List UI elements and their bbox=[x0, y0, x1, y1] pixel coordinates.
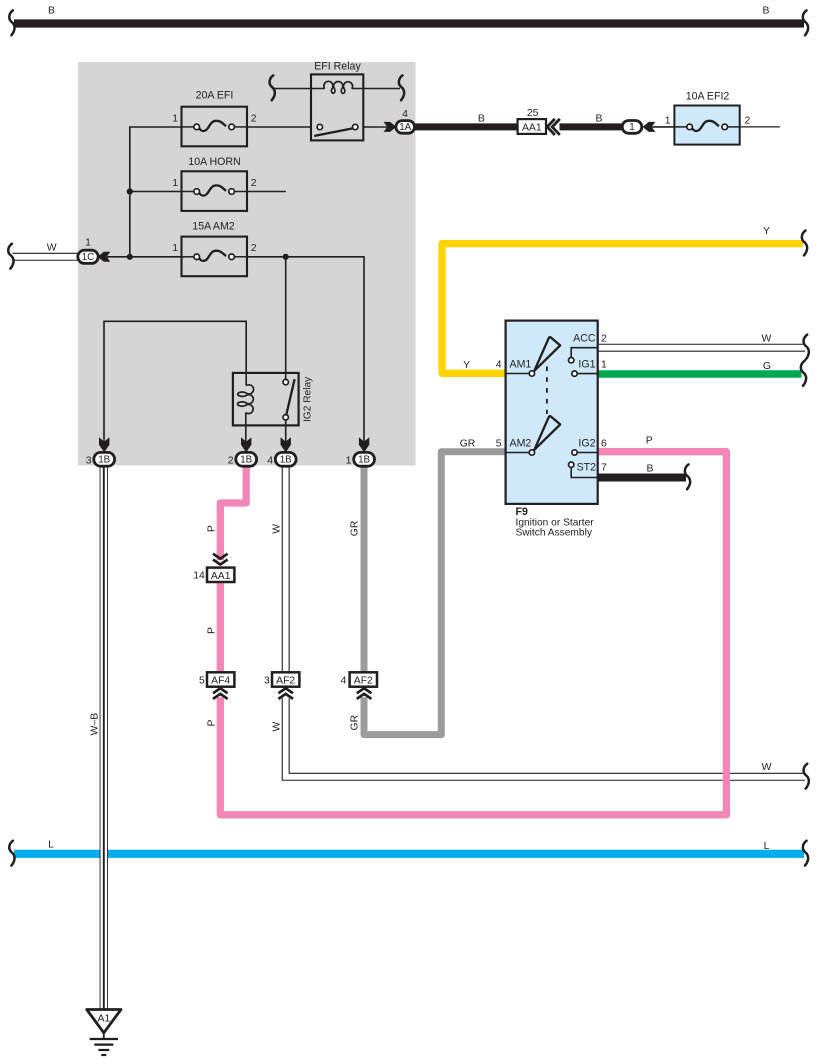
svg-text:W: W bbox=[271, 722, 282, 732]
chevrons below connector AF2 pin 4 bbox=[357, 688, 372, 693]
svg-text:Switch Assembly: Switch Assembly bbox=[516, 528, 593, 539]
wire from 20A EFI pin 2 to EFI relay bbox=[247, 126, 311, 128]
arrow into connector 1C bbox=[98, 252, 111, 262]
chevrons above connector AA1 bbox=[213, 554, 228, 559]
wire from fuse 10A EFI2 pin 2 bbox=[740, 126, 780, 128]
ignition switch F9 box bbox=[506, 321, 598, 504]
switch link dashed bbox=[546, 367, 548, 415]
svg-text:14: 14 bbox=[193, 571, 205, 582]
wire to 10A HORN pin 1 bbox=[130, 191, 182, 193]
IG1 contact bbox=[572, 371, 577, 376]
svg-text:2: 2 bbox=[601, 333, 607, 344]
AM1 switch blade bbox=[534, 337, 560, 371]
wire W from connector 1B pin 4 to AF2 bbox=[282, 465, 290, 673]
svg-text:IG2: IG2 bbox=[578, 437, 595, 449]
wire P between AA1 and AF4 bbox=[217, 582, 224, 674]
wire W to connector 1C bbox=[13, 253, 81, 261]
wire B (battery feed, top) bbox=[14, 19, 804, 27]
AM2 contact bbox=[529, 450, 534, 455]
IG2 relay contact top bbox=[283, 379, 288, 384]
wire through EFI relay coil bbox=[274, 88, 325, 90]
wire from IG2 relay switch to connector 1B pin 4 bbox=[285, 420, 287, 445]
svg-text:AA1: AA1 bbox=[211, 571, 231, 582]
connector 1B pin 3 bbox=[94, 452, 115, 466]
svg-text:L: L bbox=[48, 840, 54, 851]
wire stub from 10A HORN pin 2 bbox=[247, 191, 286, 193]
break symbol right of ST2 wire bbox=[685, 464, 690, 489]
IG2 relay contact bottom bbox=[283, 415, 288, 420]
svg-text:ACC: ACC bbox=[573, 332, 596, 344]
break symbol right of G wire bbox=[801, 361, 806, 386]
ACC contact bbox=[569, 358, 574, 363]
svg-text:10A HORN: 10A HORN bbox=[188, 156, 240, 168]
chevrons below connector AF2 pin 3 bbox=[278, 688, 293, 693]
svg-text:AM1: AM1 bbox=[510, 358, 532, 370]
IG2 relay switch blade bbox=[286, 380, 294, 415]
break symbol right of wire B bbox=[803, 10, 808, 35]
svg-text:2: 2 bbox=[228, 455, 234, 466]
ST2 contact bbox=[569, 462, 574, 467]
fuse 20A EFI bbox=[182, 107, 248, 147]
svg-text:AF2: AF2 bbox=[354, 676, 373, 687]
svg-text:4: 4 bbox=[341, 675, 347, 686]
svg-text:EFI Relay: EFI Relay bbox=[314, 60, 361, 72]
svg-text:3: 3 bbox=[264, 675, 270, 686]
svg-text:4: 4 bbox=[402, 109, 408, 120]
connector AF2 (pin 3) bbox=[272, 672, 299, 686]
svg-text:1: 1 bbox=[665, 116, 671, 127]
arrow into connector 1A bbox=[384, 122, 397, 132]
connector 1A bbox=[396, 121, 415, 134]
break symbol right of L wire bbox=[803, 841, 808, 866]
IG1 lead bbox=[577, 373, 598, 375]
svg-text:1B: 1B bbox=[280, 455, 292, 466]
svg-text:GR: GR bbox=[349, 714, 360, 730]
connector AA1 (pin 25) on B wire bbox=[518, 119, 546, 134]
wire from IG2 relay coil to connector 1B pin 2 bbox=[245, 412, 247, 444]
svg-text:AA1: AA1 bbox=[522, 123, 542, 134]
ground A1 bbox=[87, 1010, 121, 1033]
wire from EFI relay contact to connector 1A bbox=[363, 126, 388, 128]
wire from arrow to fuse 10A EFI2 pin 1 bbox=[652, 126, 674, 128]
svg-text:1A: 1A bbox=[399, 122, 411, 133]
junction-box panel bbox=[78, 62, 416, 465]
svg-text:1B: 1B bbox=[358, 455, 370, 466]
wire W from AF2 to right break bbox=[286, 698, 805, 777]
wire from junction to IG2 relay switch bbox=[285, 257, 287, 380]
connector 1B pin 4 bbox=[275, 452, 296, 466]
svg-text:1: 1 bbox=[172, 178, 178, 189]
EFI relay contact left bbox=[317, 124, 322, 129]
connector 1B pin 2 bbox=[236, 452, 257, 466]
svg-text:P: P bbox=[206, 627, 217, 634]
svg-text:B: B bbox=[48, 6, 55, 17]
svg-text:15A AM2: 15A AM2 bbox=[192, 221, 235, 233]
svg-text:2: 2 bbox=[251, 178, 257, 189]
wire from 15A AM2 pin 2 to connector 1B pin 1 bbox=[247, 257, 364, 445]
wire G from IG1 bbox=[598, 370, 802, 377]
chevrons after AA1 box bbox=[547, 119, 560, 135]
svg-text:AM2: AM2 bbox=[510, 437, 532, 449]
ACC lead bbox=[571, 348, 598, 358]
svg-text:2: 2 bbox=[251, 113, 257, 124]
svg-text:1: 1 bbox=[85, 238, 91, 249]
svg-text:AF2: AF2 bbox=[276, 676, 295, 687]
connector 1 bbox=[622, 121, 642, 134]
svg-text:5: 5 bbox=[496, 438, 502, 449]
break symbol left of wire B bbox=[9, 10, 14, 35]
wire P from connector 1B pin 2 bbox=[220, 465, 246, 560]
svg-text:B: B bbox=[478, 114, 485, 125]
svg-text:Y: Y bbox=[463, 360, 470, 371]
IG2 relay box bbox=[233, 373, 299, 426]
svg-text:25: 25 bbox=[527, 108, 539, 119]
fuse 10A EFI2 bbox=[674, 106, 739, 145]
wire B from ST2 bbox=[598, 474, 686, 482]
AM2 switch blade bbox=[534, 416, 560, 450]
wire from IG2 relay coil to connector 1B pin 3 ground branch bbox=[104, 321, 246, 444]
wire vertical bus feeding fuse pins 1 bbox=[130, 127, 182, 257]
svg-text:2: 2 bbox=[251, 243, 257, 254]
wire L (bottom) bbox=[14, 850, 804, 858]
svg-text:W–B: W–B bbox=[90, 713, 101, 736]
fuse 15A AM2 bbox=[182, 237, 248, 277]
break symbol left of W wire bbox=[8, 244, 13, 269]
IG2 contact bbox=[572, 450, 577, 455]
svg-text:P: P bbox=[206, 719, 217, 726]
svg-text:3: 3 bbox=[86, 455, 92, 466]
EFI relay contact right bbox=[353, 124, 358, 129]
svg-text:IG1: IG1 bbox=[578, 358, 595, 370]
break symbol right of ACC W wire bbox=[804, 335, 809, 360]
connector 1B pin 1 bbox=[354, 452, 375, 466]
svg-text:ST2: ST2 bbox=[577, 462, 597, 474]
svg-text:G: G bbox=[763, 361, 771, 372]
svg-text:6: 6 bbox=[601, 438, 607, 449]
svg-text:Y: Y bbox=[763, 226, 770, 237]
AM2 lead bbox=[506, 452, 530, 454]
svg-text:A1: A1 bbox=[98, 1013, 111, 1025]
junction dot at AM2 pin1 branch bbox=[127, 254, 133, 260]
svg-text:IG2 Relay: IG2 Relay bbox=[303, 376, 314, 422]
EFI relay switch blade bbox=[315, 128, 352, 135]
svg-text:1: 1 bbox=[172, 113, 178, 124]
break symbol right of EFI relay coil wire bbox=[399, 75, 404, 100]
connector AA1 (pin 14) bbox=[207, 568, 234, 582]
IG2 lead bbox=[577, 452, 598, 454]
IG2 relay coil bbox=[238, 385, 254, 414]
svg-text:B: B bbox=[763, 6, 770, 17]
svg-text:B: B bbox=[647, 464, 654, 475]
wire W from ACC terminal bbox=[598, 344, 805, 352]
svg-text:W: W bbox=[762, 762, 772, 773]
arrow into connector 1B pin 4 bbox=[281, 437, 291, 452]
svg-text:10A EFI2: 10A EFI2 bbox=[686, 91, 730, 103]
wire B from connector AA1 to connector 1 bbox=[560, 123, 624, 130]
break symbol left of EFI relay coil wire bbox=[270, 75, 275, 100]
arrow into connector 1 bbox=[643, 122, 656, 132]
wire P from AF4 around to IG2 bbox=[220, 452, 726, 815]
svg-text:4: 4 bbox=[267, 455, 273, 466]
EFI relay coil bbox=[324, 81, 353, 93]
connector 1C bbox=[78, 250, 98, 263]
junction dot at HORN pin1 branch bbox=[127, 188, 133, 194]
svg-text:2: 2 bbox=[745, 116, 751, 127]
svg-text:1: 1 bbox=[601, 359, 607, 370]
connector AF2 (pin 4) bbox=[350, 672, 377, 686]
arrow into connector 1B pin 2 bbox=[241, 437, 251, 452]
svg-text:1: 1 bbox=[172, 243, 178, 254]
svg-text:B: B bbox=[596, 114, 603, 125]
svg-text:L: L bbox=[764, 841, 770, 852]
wire GR from AF2 to AM2 bbox=[364, 452, 507, 735]
svg-text:1: 1 bbox=[629, 122, 634, 133]
svg-text:1C: 1C bbox=[82, 252, 95, 263]
svg-text:1: 1 bbox=[346, 455, 352, 466]
svg-text:20A EFI: 20A EFI bbox=[196, 90, 234, 102]
connector AF4 (pin 5) bbox=[207, 672, 234, 686]
chevrons below connector AF4 bbox=[213, 688, 228, 693]
svg-text:P: P bbox=[206, 525, 217, 532]
svg-text:P: P bbox=[646, 436, 653, 447]
wire GR from connector 1B pin 1 to AF2 bbox=[361, 465, 368, 674]
svg-text:1B: 1B bbox=[240, 455, 252, 466]
AM1 lead bbox=[506, 373, 530, 375]
arrow into connector 1B pin 1 bbox=[359, 437, 369, 452]
wire W-B from connector 1B pin 3 to ground bbox=[100, 465, 108, 1009]
break symbol left of L wire bbox=[9, 841, 14, 866]
arrow into connector 1B pin 3 bbox=[99, 437, 109, 452]
break symbol right of Y wire bbox=[802, 231, 807, 256]
fuse 10A HORN bbox=[182, 171, 248, 211]
svg-text:7: 7 bbox=[601, 463, 607, 474]
svg-text:W: W bbox=[271, 524, 282, 534]
svg-text:1B: 1B bbox=[98, 455, 110, 466]
wire Y from right break to AM1 bbox=[442, 244, 803, 374]
svg-text:GR: GR bbox=[460, 438, 476, 449]
junction dot at AM2 pin2 branch bbox=[283, 254, 289, 260]
svg-text:GR: GR bbox=[349, 520, 360, 536]
EFI relay box bbox=[311, 74, 363, 140]
break symbol right of W wire bbox=[804, 764, 809, 789]
AM1 contact bbox=[529, 371, 534, 376]
svg-text:AF4: AF4 bbox=[211, 676, 230, 687]
svg-text:W: W bbox=[761, 333, 771, 344]
svg-text:F9: F9 bbox=[516, 506, 528, 518]
ST2 lead bbox=[571, 467, 598, 477]
svg-text:4: 4 bbox=[496, 359, 502, 370]
svg-text:5: 5 bbox=[199, 675, 205, 686]
wire from connector 1C to fuse 15A AM2 pin 1 bbox=[107, 256, 182, 258]
svg-text:W: W bbox=[47, 242, 57, 253]
wire B from connector 1A to connector AA1 bbox=[414, 123, 518, 130]
